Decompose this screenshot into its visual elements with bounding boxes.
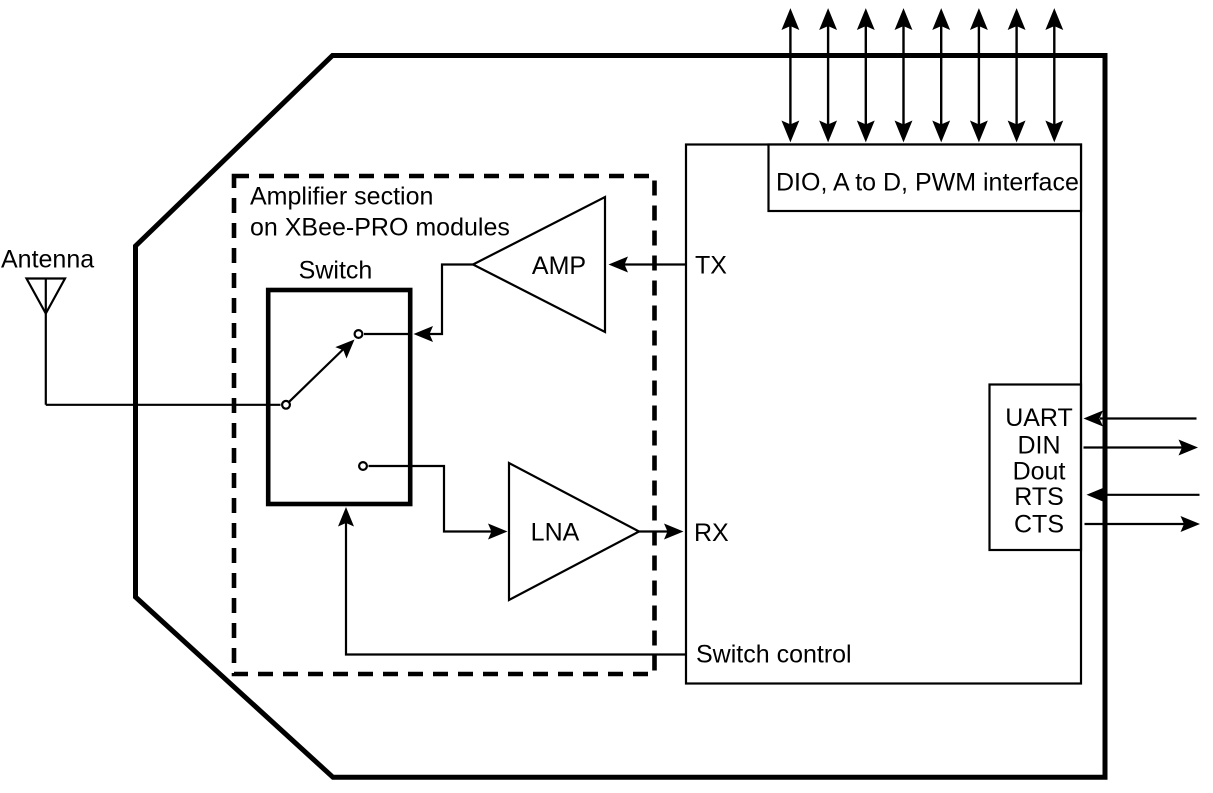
main module box [686,145,1081,684]
DIO bidirectional arrow 2 [820,10,836,142]
svg-text:RTS: RTS [1014,483,1064,511]
svg-text:Dout: Dout [1013,458,1066,486]
switch control wire (up arrowhead into switch box) [338,507,686,655]
DIO bidirectional arrow 1 [782,10,798,142]
DIO bidirectional arrow 6 [971,10,987,142]
DIO interface box [769,145,1082,212]
wire: lower contact to LNA input (right arrowhead) [369,466,508,540]
svg-text:Amplifier section: Amplifier section [250,183,433,211]
svg-text:CTS: CTS [1014,511,1064,539]
Dout output arrow (out of UART, pointing right) [1084,440,1199,456]
CTS output arrow (pointing right) [1085,516,1201,532]
svg-text:DIO, A to D, PWM interface: DIO, A to D, PWM interface [776,169,1079,197]
outer module boundary [136,56,1106,778]
svg-text:AMP: AMP [532,252,586,280]
dashed amplifier-section box [234,176,655,674]
svg-text:on XBee-PRO modules: on XBee-PRO modules [250,214,510,242]
svg-text:DIN: DIN [1017,432,1060,460]
wire: LNA output to RX (right arrowhead) [639,524,684,540]
svg-text:RX: RX [694,519,729,547]
DIO bidirectional arrow 3 [858,10,874,142]
antenna symbol [27,279,66,405]
LNA triangle [509,463,639,600]
UART box [990,385,1082,551]
switch lower contact circle [359,462,367,470]
svg-text:Switch control: Switch control [696,641,852,669]
RTS input arrow (pointing left) [1087,487,1200,503]
DIO bidirectional arrow 8 [1046,10,1062,142]
antenna wire to switch pole [46,404,281,406]
switch box [268,290,410,504]
switch lever with arrowhead [289,340,355,402]
wire: TX to AMP input (left arrowhead) [609,257,687,273]
DIO bidirectional arrow 4 [896,10,912,142]
wire: AMP output to switch (with left arrowhead) [414,265,474,343]
DIO bidirectional arrow 7 [1009,10,1025,142]
svg-text:Antenna: Antenna [1,246,94,274]
switch top contact circle [355,330,363,338]
DIO bidirectional arrow 5 [933,10,949,142]
wire: top contact to box edge [364,333,412,335]
svg-text:TX: TX [695,252,727,280]
svg-text:Switch: Switch [299,257,373,285]
DIN input arrow (into UART, pointing left) [1084,411,1197,427]
svg-text:LNA: LNA [531,519,580,547]
AMP triangle [473,197,605,332]
switch pole contact circle [282,401,290,409]
svg-text:UART: UART [1005,404,1073,432]
